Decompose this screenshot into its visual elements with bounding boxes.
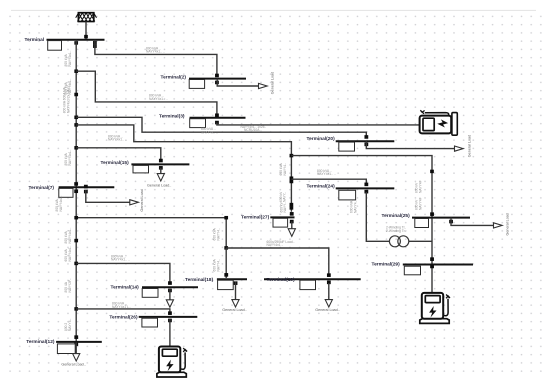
busbar Terminal(15) (131, 163, 189, 165)
junction dot trunk long line (290, 154, 294, 158)
result box Terminal(12) (57, 344, 75, 354)
switch dot Terminal(19) upper (327, 273, 331, 277)
load arrow Terminal(2) (259, 83, 268, 88)
cable label rotated trunk a (279, 162, 287, 175)
switch dot Terminal(7) load lower (84, 190, 88, 194)
switch dot left feeder y240 (74, 239, 78, 243)
svg-text:Terminal(20): Terminal(20) (307, 136, 336, 142)
switch dot Terminal(12) lower (74, 342, 78, 346)
svg-text:NAYY4..: NAYY4.. (216, 259, 220, 271)
busbar Terminal(29) (403, 264, 473, 266)
charging station bottom right (420, 293, 450, 324)
svg-text:Terminal(3): Terminal(3) (159, 114, 185, 120)
result box Terminal(29) (404, 266, 420, 275)
result box Terminal(27) (273, 218, 288, 227)
svg-text:General Load: General Load (271, 72, 275, 94)
svg-text:Terminal(26): Terminal(26) (109, 314, 138, 320)
result box Terminal(25) (415, 219, 429, 228)
switch dot Terminal(15) upper (159, 159, 163, 163)
switch dot Terminal(27) upper (290, 212, 294, 216)
svg-text:Terminal(25): Terminal(25) (382, 213, 411, 219)
svg-text:NAYY4x1..: NAYY4x1.. (68, 246, 72, 262)
load wire Terminal(7) (86, 190, 130, 202)
load wire Terminal(25) (451, 218, 494, 226)
switch dot left feeder mid (74, 93, 78, 97)
load wire Terminal(2) (217, 79, 258, 86)
cable label rotated feeder1 b (64, 79, 72, 95)
wire line A to Terminal(20) (76, 117, 366, 137)
svg-text:NAYY4x1..: NAYY4x1.. (59, 196, 63, 212)
junction dot Terminal(14) branch (74, 262, 78, 266)
svg-text:..: .. (429, 133, 431, 137)
result box Terminal(20) (339, 142, 355, 151)
svg-text:NAYY2F..: NAYY2F.. (68, 278, 72, 292)
charging station bottom center (157, 347, 187, 378)
cable label rotated T18 feeder a (213, 227, 221, 240)
svg-text:NAYY4x1.. ..: NAYY4x1.. .. (111, 258, 130, 262)
load arrow Terminal(25) (494, 223, 503, 228)
result box Terminal(19) (300, 280, 316, 289)
result box Terminal(7) (59, 188, 73, 197)
result box Terminal(24) (339, 190, 356, 200)
cable label rotated feeder1 e (55, 196, 63, 212)
switch dot long line mid (430, 170, 434, 174)
wire to Terminal(18) (225, 248, 227, 278)
wire transformer to vertical (409, 240, 432, 242)
switch dot Terminal(14) upper (168, 281, 172, 285)
switch dot Terminal(14) lower (168, 289, 172, 293)
long wire to Terminal(25) and charging (291, 156, 432, 293)
cable label rotated feeder1 c (63, 84, 71, 114)
wire external grid to main bus (85, 22, 87, 40)
cable label rotated trunk c (279, 201, 287, 212)
load wire Terminal(19) (328, 283, 330, 300)
load arrow down Terminal(27) (288, 229, 295, 237)
svg-text:General Load: General Load (140, 189, 144, 211)
svg-text:NAYY4..: NAYY4.. (353, 201, 357, 213)
switch dot Terminal(26) lower (168, 319, 172, 323)
load wire Terminal(12) (75, 343, 77, 354)
switch dot Terminal(25) load (449, 220, 453, 224)
switch dot Terminal(24) lower (364, 190, 368, 194)
switch dot Terminal(3) upper (215, 113, 219, 117)
junction dot line B on left feeder (74, 123, 78, 127)
load arrow down Terminal(15) (157, 174, 164, 181)
load arrow down Terminal(14) (166, 300, 173, 307)
result box Terminal(26) (142, 318, 158, 327)
svg-text:Terminal: Terminal (25, 37, 45, 43)
busbar Terminal(25) (412, 217, 470, 219)
cable label rotated feeder1 i (64, 319, 72, 331)
load wire Terminal(14) (169, 289, 171, 300)
cable label rotated feeder1 d (64, 150, 72, 166)
switch dot Terminal(27) lower (290, 220, 294, 224)
result box Terminal (48, 41, 62, 51)
svg-text:General Load..: General Load.. (61, 363, 85, 367)
cable label rotated T25 feeder a (415, 180, 423, 193)
svg-text:Terminal(27): Terminal(27) (241, 215, 270, 221)
wire to Terminal(14) (76, 263, 170, 283)
svg-text:NAYY4x1 ..: NAYY4x1 .. (267, 243, 284, 247)
svg-text:NAYY4F: NAYY4F (418, 197, 422, 210)
busbar Terminal(3) (190, 117, 246, 119)
svg-text:NAYY4..: NAYY4.. (283, 163, 287, 175)
svg-text:NAYY4x1.. ..: NAYY4x1.. .. (149, 97, 168, 101)
svg-text:NAYY4..: NAYY4.. (216, 228, 220, 240)
wire Terminal(26) to charging station (169, 319, 171, 346)
svg-text:General Load..: General Load.. (147, 184, 171, 188)
svg-text:NAYY4x.. ..: NAYY4x.. .. (201, 131, 218, 135)
busbar Terminal(19) (264, 278, 361, 280)
busbar Terminal(20) (336, 140, 395, 142)
switch dot feeder2 on Terminal (93, 41, 97, 45)
busbar Terminal(2) (189, 78, 246, 80)
switch dot Terminal(29) upper (430, 257, 434, 261)
junction dot line A on left feeder (74, 116, 78, 120)
load wire Terminal(27) (291, 221, 293, 228)
switch dot Terminal(18) upper (224, 273, 228, 277)
switch dot Terminal(3) lower (215, 121, 219, 125)
svg-text:General Load: General Load (506, 213, 510, 235)
load arrow Terminal(20) (455, 146, 464, 151)
svg-text:2-Winding Tr..: 2-Winding Tr.. (386, 229, 406, 233)
result box Terminal(3) (190, 119, 206, 128)
result box Terminal(15) (133, 165, 149, 173)
frame top edge (11, 9, 536, 11)
load arrow down Terminal(19) (325, 300, 332, 307)
switch dot trunk T24 branch upper (290, 176, 294, 180)
external grid symbol (76, 13, 97, 22)
svg-text:Terminal(24): Terminal(24) (307, 184, 336, 190)
svg-text:Terminal(2): Terminal(2) (161, 74, 187, 80)
switch dot trunk mid1 (290, 203, 294, 207)
svg-text:NAYY..: NAYY.. (283, 192, 287, 202)
svg-text:NAYY4x1.. ..: NAYY4x1.. .. (317, 172, 336, 176)
left feeder wire (75, 40, 77, 345)
svg-text:Terminal(7): Terminal(7) (29, 185, 55, 191)
switch dot trunk mid2 (290, 206, 294, 210)
junction dot Terminal(15) branch (74, 146, 78, 150)
switch dot external grid feeder (84, 35, 88, 39)
busbar Terminal(7) (59, 186, 115, 188)
cable label rotated feeder1 g (64, 246, 72, 262)
busbar Terminal (47, 39, 105, 41)
busbar Terminal(26) (139, 316, 198, 318)
wire Terminal(7) branch line y217 (76, 218, 226, 248)
load wire Terminal(18) (235, 282, 237, 300)
svg-text:Terminal(18): Terminal(18) (185, 277, 214, 283)
wire branch to Terminal(24) (291, 179, 366, 184)
svg-text:Terminal(15): Terminal(15) (101, 160, 130, 166)
cable label rotated T18 feeder b (213, 258, 221, 271)
switch dot Terminal(24) upper (364, 183, 368, 187)
svg-text:NAYY4x1 L..: NAYY4x1 L.. (112, 305, 131, 309)
switch dot Terminal(26) upper (168, 311, 172, 315)
svg-text:NAYY4F: NAYY4F (418, 180, 422, 193)
switch dot Terminal(20) lower (364, 143, 368, 147)
svg-text:Terminal(12): Terminal(12) (26, 339, 55, 345)
result box Terminal(2) (189, 80, 204, 89)
busbar Terminal(14) (142, 286, 198, 288)
switch dot line to Terminal(2) (93, 44, 97, 48)
svg-text:NAYY..: NAYY.. (283, 202, 287, 212)
switch dot Terminal(15) lower (159, 166, 163, 170)
switch dot Terminal(29) lower (430, 265, 434, 269)
cable label rotated feeder1 h (64, 278, 72, 292)
result box Terminal(14) (142, 289, 158, 298)
cable label rotated feeder1 f (64, 228, 72, 244)
svg-text:NAYY4x1..: NAYY4x1.. (68, 150, 72, 166)
switch dot feeder1 on Terminal (74, 41, 78, 45)
switch dot Terminal(20) upper (364, 135, 368, 139)
switch dot Terminal(2) lower (215, 81, 219, 85)
cable label rotated T24 lower (350, 200, 358, 213)
switch dot Terminal(19) lower (327, 281, 331, 285)
busbar Terminal(18) (217, 278, 247, 280)
svg-text:Terminal(14): Terminal(14) (111, 285, 140, 291)
wire Terminal(3) to charging station (217, 123, 419, 125)
load arrow down Terminal(12) (73, 354, 80, 361)
svg-text:NAYY4x1 2x NAYY..: NAYY4x1 2x NAYY.. (67, 84, 71, 114)
busbar Terminal(24) (336, 187, 395, 189)
wire to Terminal(19) (226, 248, 329, 274)
switch dot Terminal(7) load upper (84, 185, 88, 189)
svg-text:Terminal(19): Terminal(19) (267, 277, 296, 283)
switch dot Terminal(2) upper (215, 74, 219, 78)
svg-text:NAYY4..: NAYY4.. (68, 319, 72, 331)
switch dot Terminal(7) upper (74, 182, 78, 186)
svg-text:General Load: General Load (467, 135, 471, 157)
load wire Terminal(20) (366, 141, 454, 148)
wire to Terminal(2) (95, 40, 217, 75)
switch dot trunk T24 branch lower (290, 180, 294, 184)
cable label rotated trunk b (279, 191, 287, 202)
cable label rotated feeder1 a (64, 51, 72, 67)
svg-text:NAYY4x1.. ..: NAYY4x1.. .. (108, 138, 127, 142)
junction dot y217 left (74, 216, 78, 220)
busbar Terminal(12) (56, 341, 102, 343)
load arrow Terminal(7) (130, 200, 139, 205)
busbar Terminal(27) (270, 216, 294, 218)
cable label rotated T25 feeder b (415, 197, 423, 210)
result box Terminal(18) (218, 280, 234, 289)
load arrow down Terminal(18) (232, 300, 239, 307)
wire Terminal(24) to transformer (366, 192, 389, 241)
wire line B trunk (76, 125, 291, 212)
junction dot y248 corner (224, 246, 228, 250)
svg-text:General Load..: General Load.. (222, 308, 246, 312)
junction dot branch Terminal(3) (74, 69, 78, 73)
junction dot y217 corner (224, 216, 228, 220)
wire to Terminal(3) (76, 71, 217, 115)
switch dot Terminal(18) load (234, 281, 238, 285)
wire to Terminal(15) (76, 148, 161, 161)
junction dot Terminal(26) branch (74, 307, 78, 311)
svg-text:General Load..: General Load.. (315, 308, 339, 312)
svg-text:NAYY4x1.. ..: NAYY4x1.. .. (146, 50, 165, 54)
charging station top right (420, 110, 458, 135)
load wire Terminal(15) (160, 168, 162, 174)
svg-text:NAYY4x1..: NAYY4x1.. (68, 51, 72, 67)
transformer 2-winding (389, 236, 408, 247)
switch dot Terminal(7) lower (74, 189, 78, 193)
wire to Terminal(26) (76, 309, 170, 314)
switch dot Terminal(25) upper (430, 212, 434, 216)
svg-text:Terminal(29): Terminal(29) (372, 261, 401, 267)
switch dot Terminal(12) upper (74, 335, 78, 339)
svg-text:NAYY4x1..: NAYY4x1.. (68, 228, 72, 244)
